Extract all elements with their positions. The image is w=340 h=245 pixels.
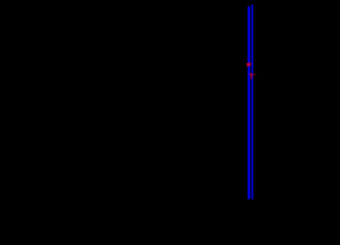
left line top fade xyxy=(247,5,250,8)
blue vertical line (right, thinner) xyxy=(252,5,254,200)
blue line overlay across star center xyxy=(248,61,250,67)
faint red dash xyxy=(252,74,255,75)
red label "1" xyxy=(250,73,252,79)
red star marker xyxy=(246,61,252,66)
blue vertical line (left, thicker) xyxy=(248,5,250,199)
